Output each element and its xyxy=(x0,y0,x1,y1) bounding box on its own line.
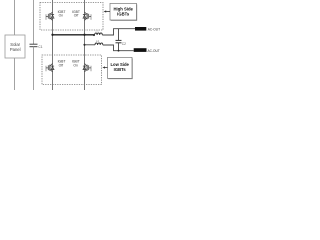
arrow high side callout to dashed box xyxy=(104,10,110,12)
wire solar panel negative lead (to DC- rail, cropped at bottom) xyxy=(14,58,16,90)
wire DC bus down to C1 top plate xyxy=(33,0,35,44)
svg-text:Off: Off xyxy=(59,64,64,68)
svg-text:Panel: Panel xyxy=(10,47,21,52)
wire right bridge leg (DC+ to DC-, cropped top and bottom) xyxy=(84,0,86,90)
inductor L2 xyxy=(95,43,103,45)
callout box "High Side IGBTs" xyxy=(110,3,137,20)
high side IGBTs dashed enclosure xyxy=(40,3,103,31)
transistor Q3 bottom-left IGBT with anti-parallel diode xyxy=(46,64,54,72)
transistor Q4 bottom-right IGBT with anti-parallel diode (mirrored) xyxy=(83,64,91,72)
svg-text:C1: C1 xyxy=(38,45,42,49)
svg-text:L2: L2 xyxy=(96,39,100,43)
node junction right leg midpoint xyxy=(83,44,85,46)
node crossover on right leg xyxy=(83,34,85,36)
svg-text:AC-OUT: AC-OUT xyxy=(148,49,160,53)
wire right leg midpoint to L2 xyxy=(85,44,96,46)
wire C1 bottom plate down (cropped at bottom) xyxy=(33,47,35,90)
capacitor C1 (DC link) xyxy=(30,44,38,47)
node C2 bottom junction xyxy=(118,50,120,52)
solar panel block xyxy=(5,35,25,58)
svg-text:C2: C2 xyxy=(122,42,126,46)
svg-text:IGBTs: IGBTs xyxy=(114,67,127,72)
wire L1 to AC-OUT top connector xyxy=(102,29,135,35)
svg-text:On: On xyxy=(73,64,78,68)
svg-text:On: On xyxy=(59,14,64,18)
wire thick phase A rail (left leg midpoint to L1) xyxy=(53,34,95,36)
inductor L1 xyxy=(95,33,103,35)
transistor Q1 top-left IGBT with anti-parallel diode xyxy=(46,12,54,20)
low side IGBTs dashed enclosure xyxy=(42,55,102,85)
wire L2 to AC-OUT bottom connector xyxy=(103,45,134,51)
connector AC-OUT top (terminal block) xyxy=(135,27,146,31)
svg-text:L1: L1 xyxy=(96,29,100,33)
node junction left leg midpoint xyxy=(51,34,53,36)
svg-text:Off: Off xyxy=(74,14,79,18)
connector AC-OUT bottom (terminal block) xyxy=(134,48,147,52)
callout box "Low Side IGBTs" xyxy=(108,57,133,78)
transistor Q2 top-right IGBT with anti-parallel diode (mirrored) xyxy=(83,12,91,20)
arrow low side callout to dashed box xyxy=(102,66,107,68)
wire left bridge leg (DC+ to DC-, cropped top and bottom) xyxy=(52,0,54,90)
node rail to L1 xyxy=(93,34,95,36)
label "Solar Panel" xyxy=(10,42,21,52)
capacitor C2 (AC filter, across output) xyxy=(116,29,122,51)
svg-text:AC-OUT: AC-OUT xyxy=(148,28,160,32)
wire solar panel positive lead (to DC+ rail, cropped at top) xyxy=(14,0,16,35)
svg-text:IGBTs: IGBTs xyxy=(117,12,130,17)
